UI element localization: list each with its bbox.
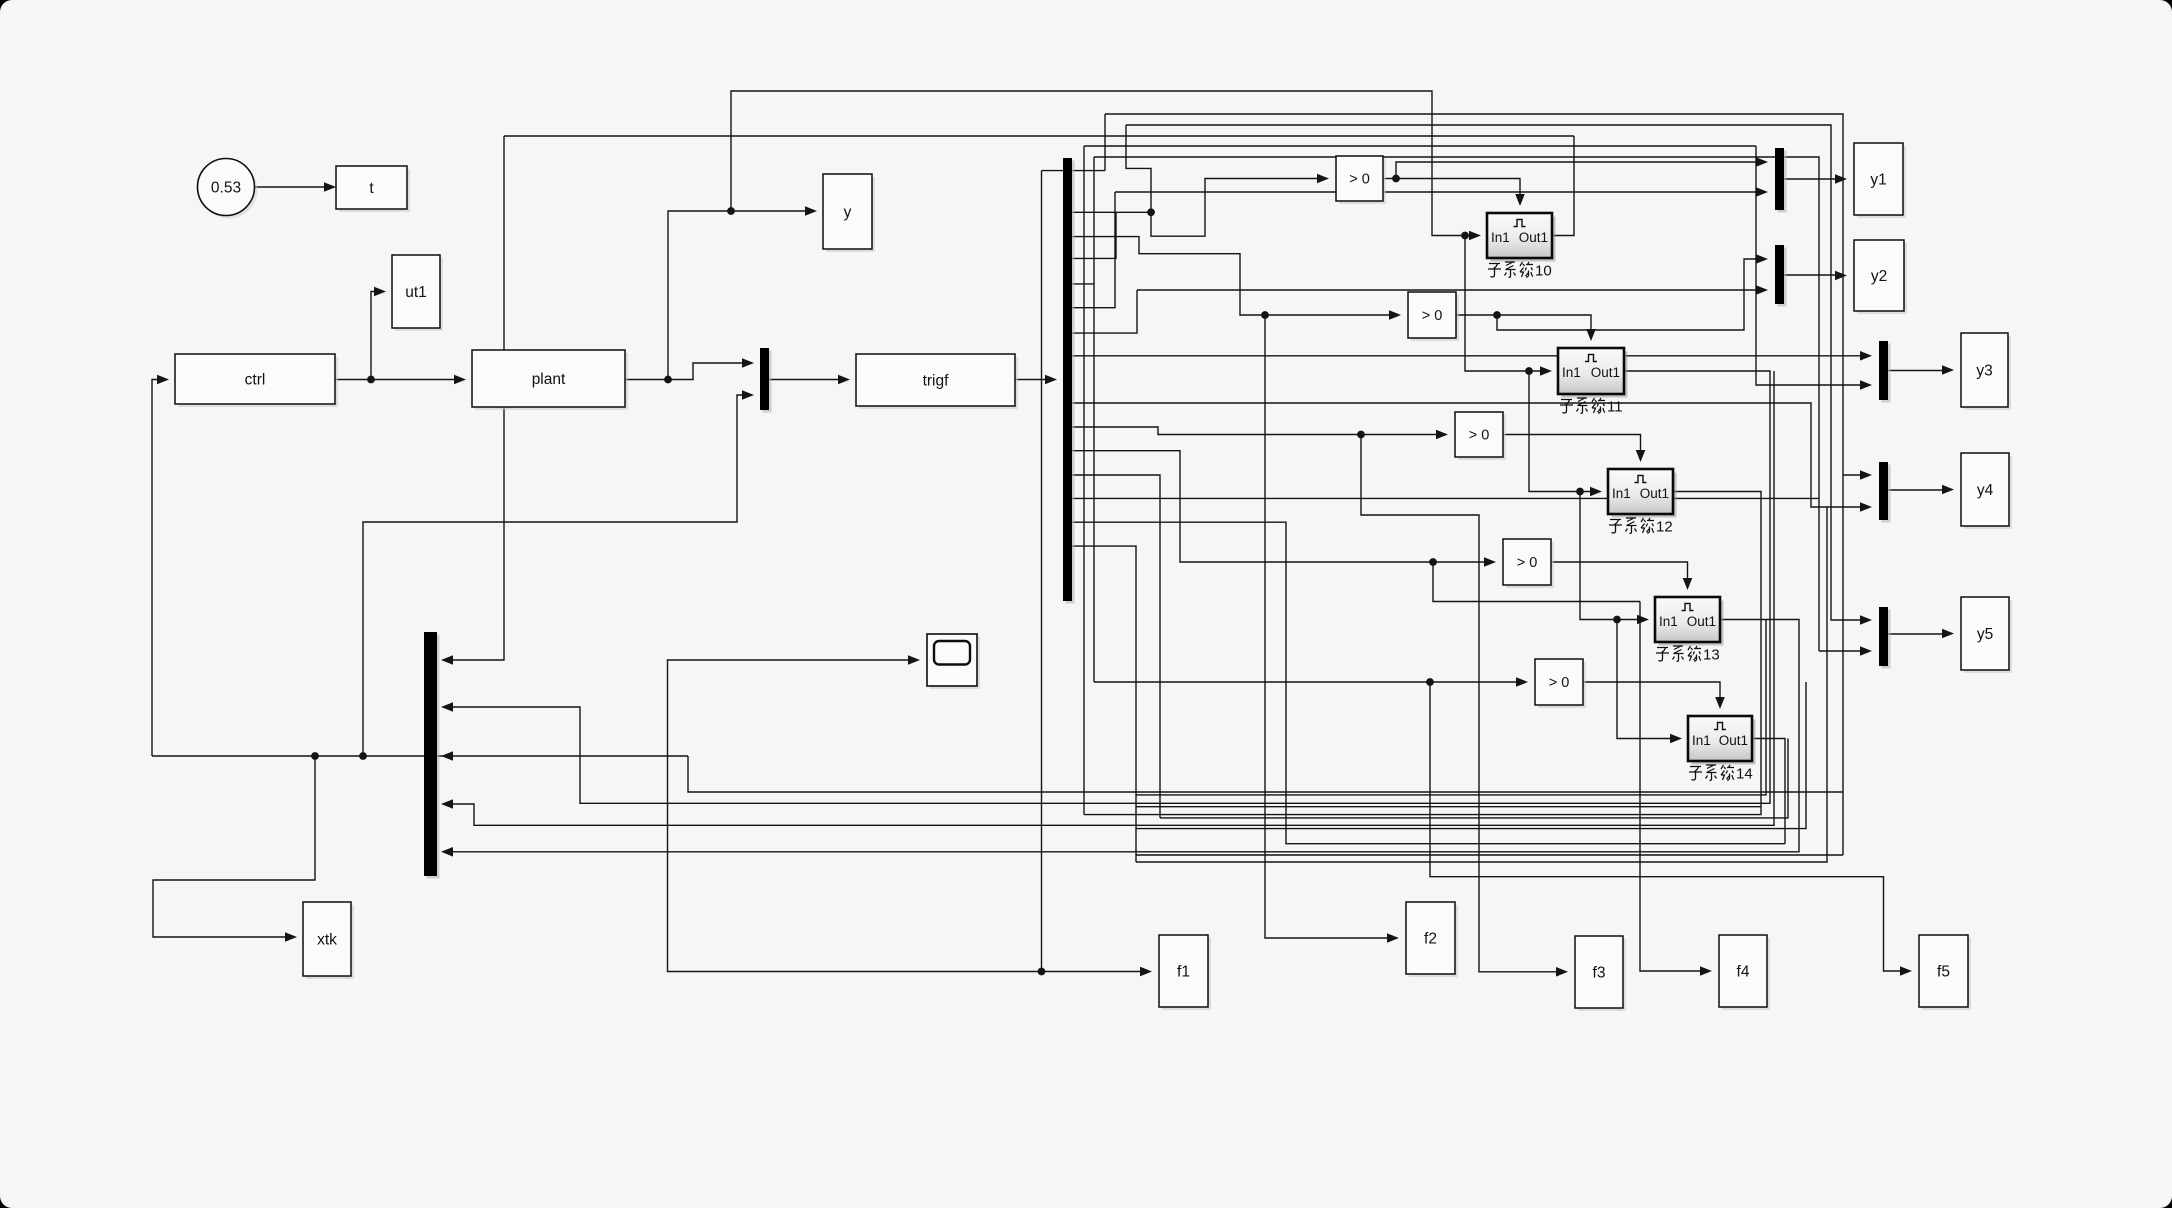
outport block y4: [1961, 453, 2012, 529]
outport block y2: [1854, 240, 1907, 314]
svg-text:> 0: > 0: [1549, 675, 1570, 691]
wire to mux Y3 in2: [1756, 146, 1865, 385]
label subsystem 13: [1656, 646, 1720, 664]
outport block y5: [1961, 597, 2012, 673]
svg-text:In1: In1: [1692, 733, 1711, 748]
outport block f2: [1406, 902, 1458, 977]
label subsystem 12: [1609, 518, 1673, 536]
wire 0.53 to t: [255, 186, 331, 188]
wire branch to f3: [1361, 435, 1561, 972]
svg-text:Out1: Out1: [1519, 230, 1548, 245]
triggered subsystem 13: [1655, 597, 1724, 646]
svg-text:11: 11: [1607, 399, 1623, 416]
wire feedback bus to mux L in3: [152, 755, 688, 757]
wire compare3 to trigger subsystem12: [1503, 435, 1641, 456]
wire demux stub y546 riser x1136: [1072, 546, 1136, 862]
wire demux stub y308 riser x1115: [1072, 192, 1115, 308]
wire branch to subsystem13 In1: [1580, 492, 1642, 620]
triggered subsystem 14: [1688, 716, 1756, 765]
svg-text:y5: y5: [1977, 626, 1993, 643]
junction dots: [367, 376, 375, 384]
wire riser x1084: [1083, 146, 1085, 815]
wire demux stub y522 bottom band y844: [1072, 522, 1785, 844]
wire demux stub y475 riser x1160: [1072, 475, 1160, 818]
wire branch to xtk: [153, 756, 315, 937]
svg-text:f4: f4: [1737, 963, 1750, 980]
wire mux Y1 to y1: [1784, 178, 1840, 180]
outport block ut1: [392, 255, 443, 331]
subsystem block trigf: [856, 354, 1018, 409]
triggered subsystem 11: [1558, 348, 1628, 398]
svg-text:13: 13: [1703, 647, 1720, 664]
wire top band y157 riser x1819: [1094, 157, 1819, 498]
wire riser to f1: [1041, 171, 1043, 972]
wire compare1 branch to mux Y1 in1: [1396, 162, 1761, 179]
label subsystem 11: [1560, 398, 1623, 416]
wire demux stub y258 riser x1116: [1072, 212, 1116, 258]
outport block f5: [1919, 935, 1971, 1010]
wire branch to subsystem14 In1: [1617, 620, 1675, 739]
wire subsystem13 out to mux L in5: [448, 620, 1799, 852]
wire mux M1 to trigf: [769, 379, 843, 381]
svg-text:y: y: [844, 204, 852, 221]
triggered subsystem 12: [1608, 469, 1677, 518]
svg-text:In1: In1: [1612, 486, 1631, 501]
svg-text:10: 10: [1535, 263, 1552, 280]
wire subsystem11 out to mux L in2: [448, 371, 1770, 803]
wire stub riser to mux Y1 in2: [1115, 191, 1761, 193]
svg-text:y3: y3: [1976, 362, 1992, 379]
wire riser x1094: [1093, 157, 1095, 682]
svg-text:y4: y4: [1977, 482, 1994, 499]
wire to compare5: [1094, 681, 1521, 683]
wire riser x504 to mux L in1: [448, 136, 504, 660]
mux Y5: [1879, 607, 1891, 669]
wire subsystem10 out riser x1574: [1552, 136, 1574, 236]
demux D1: [1063, 158, 1075, 604]
wire demux to mux Y4 in2: [1072, 403, 1865, 507]
svg-text:t: t: [369, 180, 374, 197]
svg-text:> 0: > 0: [1517, 555, 1538, 571]
wire branch to ut1: [371, 292, 379, 380]
wire y to subsystem10 In1: [731, 91, 1474, 236]
mux Y2: [1775, 245, 1787, 307]
mux M1: [760, 348, 772, 413]
wire to compare1: [1151, 179, 1322, 237]
svg-text:> 0: > 0: [1422, 308, 1443, 324]
wire bottom band y855: [1136, 854, 1843, 856]
svg-text:In1: In1: [1491, 230, 1510, 245]
wire branch to f2: [1265, 315, 1392, 938]
svg-text:f1: f1: [1177, 963, 1190, 980]
outport block f1: [1159, 935, 1211, 1010]
wire mux Y5 to y5: [1888, 633, 1947, 635]
svg-text:14: 14: [1736, 766, 1753, 783]
constant source 0.53: [198, 159, 258, 219]
wire bottom band y862 riser x1827: [1136, 507, 1827, 862]
mux Y1: [1775, 148, 1787, 213]
wire compare1 to trigger subsystem10: [1383, 179, 1520, 200]
wire demux stub y498: [1072, 497, 1819, 499]
wire top band y146: [1084, 145, 1756, 147]
wire mux Y4 to y4: [1888, 489, 1947, 491]
wire ctrl to plant: [335, 379, 459, 381]
wire feedback to ctrl: [152, 380, 162, 757]
outport block y: [823, 174, 875, 252]
outport block xtk: [303, 902, 354, 979]
svg-text:> 0: > 0: [1349, 172, 1370, 188]
wire top band y114 riser x1843: [1105, 114, 1843, 855]
wire bottom band y807: [1136, 806, 1761, 808]
wire compare4 to trigger subsystem13: [1551, 562, 1688, 583]
svg-text:Out1: Out1: [1719, 733, 1748, 748]
svg-text:ut1: ut1: [405, 284, 427, 301]
wire compare4 branch: [1433, 562, 1640, 602]
wire mux Y2 to y2: [1784, 274, 1840, 276]
svg-text:y2: y2: [1871, 268, 1887, 285]
compare block 4: [1503, 539, 1554, 588]
compare block 2: [1408, 292, 1459, 341]
svg-text:In1: In1: [1659, 614, 1678, 629]
outport block y1: [1854, 143, 1906, 218]
wire bottom band y795: [1136, 620, 1766, 795]
wire demux to compare2: [1072, 237, 1394, 315]
subsystem block ctrl: [175, 354, 338, 407]
wire bottom band y792: [688, 756, 1843, 792]
wire riser to f4: [1640, 602, 1705, 972]
wire branch to subsystem12 In1: [1529, 371, 1595, 492]
wire riser x1105: [1104, 114, 1106, 171]
triggered subsystem 10: [1487, 213, 1556, 262]
wire bottom band y825 to mux L in4: [448, 371, 1774, 825]
mux Y4: [1879, 462, 1891, 523]
svg-text:0.53: 0.53: [211, 180, 241, 197]
wire riser x1819 lower: [1818, 498, 1820, 651]
outport block y3: [1961, 333, 2011, 410]
wire compare2 branch to mux Y2 in1: [1497, 259, 1761, 330]
wire to f1: [1042, 971, 1146, 973]
wire demux to mux Y3 in1: [1072, 355, 1865, 357]
svg-text:trigf: trigf: [923, 372, 950, 389]
mux L: [424, 632, 440, 879]
compare block 1: [1336, 156, 1386, 204]
compare block 3: [1455, 412, 1506, 460]
wire stub riser to mux Y2 in2: [1137, 289, 1761, 291]
wire plant out: [625, 379, 668, 381]
svg-text:12: 12: [1656, 519, 1673, 536]
svg-text:f5: f5: [1937, 963, 1950, 980]
wire demux out1 stub: [1042, 170, 1106, 172]
wire bottom band y829: [1136, 682, 1806, 829]
compare block 5: [1535, 659, 1586, 708]
outport block f3: [1575, 936, 1626, 1011]
svg-text:> 0: > 0: [1469, 428, 1490, 444]
svg-text:ctrl: ctrl: [245, 371, 266, 388]
wire demux stub y333 riser x1137: [1072, 290, 1137, 333]
wire compare2 to trigger subsystem11: [1456, 315, 1591, 334]
wire branch to f5: [1430, 682, 1905, 971]
wire demux to compare4: [1072, 451, 1489, 562]
label subsystem 14: [1689, 765, 1753, 783]
svg-text:xtk: xtk: [317, 931, 337, 948]
wire bottom band y818: [1160, 739, 1788, 818]
scope block: [927, 634, 980, 689]
wire demux stub y284: [1072, 283, 1094, 285]
wire trigf to demux: [1015, 379, 1050, 381]
wire branch to subsystem11 In1: [1465, 236, 1545, 372]
wire branch to scope: [668, 660, 1042, 972]
wire top band y125 to mux Y5 in1: [1126, 125, 1865, 620]
wire to mux M1 in2: [363, 395, 747, 756]
svg-text:f2: f2: [1424, 930, 1437, 947]
mux Y3: [1879, 341, 1891, 403]
label subsystem 10: [1488, 262, 1552, 280]
wire subsystem12 out bottom band y815: [1084, 492, 1761, 815]
svg-text:Out1: Out1: [1687, 614, 1716, 629]
svg-text:y1: y1: [1870, 171, 1886, 188]
svg-text:f3: f3: [1593, 964, 1606, 981]
wire demux to compare3: [1072, 427, 1441, 435]
wire mux Y3 to y3: [1888, 370, 1947, 372]
wire to mux Y5 in2: [1819, 650, 1865, 652]
wire compare5 to trigger subsystem14: [1583, 682, 1720, 702]
subsystem block plant: [472, 350, 628, 410]
wire branch to mux Y4 in1: [1843, 474, 1865, 476]
outport block t: [336, 166, 410, 212]
svg-text:Out1: Out1: [1640, 486, 1669, 501]
wire top band y136: [504, 135, 1574, 137]
svg-text:Out1: Out1: [1591, 365, 1620, 380]
outport block f4: [1719, 935, 1770, 1010]
svg-text:In1: In1: [1562, 365, 1581, 380]
wire demux stub y212: [1072, 211, 1151, 213]
wire subsystem14 out: [1752, 739, 1785, 844]
wire to mux M1 in1: [668, 363, 747, 380]
wire to y: [668, 211, 810, 380]
wire riser jog x1126 to junction: [1126, 125, 1151, 212]
svg-text:plant: plant: [532, 371, 566, 388]
